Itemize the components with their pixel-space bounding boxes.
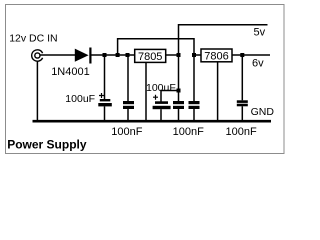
wire 7806 ground pin bbox=[217, 62, 219, 121]
capacitor C3 100uF electrolytic (mid) bbox=[153, 91, 179, 122]
svg-text:1N4001: 1N4001 bbox=[51, 66, 90, 78]
svg-text:100uF: 100uF bbox=[65, 93, 95, 105]
wire diode to 7805 input bbox=[92, 54, 135, 56]
node junction 7805 output bbox=[177, 53, 181, 57]
svg-text:7805: 7805 bbox=[138, 51, 162, 63]
capacitor C6 100nF bbox=[237, 55, 248, 121]
connector J1 DC jack bbox=[32, 50, 43, 61]
capacitor C5 100nF bbox=[189, 55, 200, 121]
wire jack to diode bbox=[40, 54, 75, 56]
ground rail bbox=[33, 120, 272, 123]
wire 7805 output bbox=[166, 54, 179, 56]
svg-text:6v: 6v bbox=[252, 57, 264, 69]
wire 7806 input bbox=[194, 54, 201, 56]
wire B 12v over 7805 to 7806 input bbox=[118, 39, 194, 55]
regulator U2 7806 bbox=[201, 49, 232, 63]
svg-text:7806: 7806 bbox=[204, 51, 228, 63]
wire 7805 ground pin bbox=[145, 62, 147, 121]
svg-text:100nF: 100nF bbox=[111, 126, 142, 138]
svg-text:100nF: 100nF bbox=[173, 126, 204, 138]
node junction on input rail (100nF tap) bbox=[126, 53, 130, 57]
svg-text:12v DC IN: 12v DC IN bbox=[9, 33, 57, 45]
node junction 7806 input bbox=[192, 53, 196, 57]
svg-text:5v: 5v bbox=[254, 27, 266, 39]
capacitor C1 100uF electrolytic bbox=[98, 55, 112, 121]
wire 7806 output 6v bbox=[232, 54, 270, 56]
svg-text:Power Supply: Power Supply bbox=[7, 137, 87, 151]
svg-text:100uF: 100uF bbox=[146, 82, 176, 94]
svg-text:GND: GND bbox=[251, 106, 275, 118]
regulator U1 7805 bbox=[135, 49, 166, 63]
border frame bbox=[6, 5, 285, 154]
wire 5v rail bbox=[179, 25, 268, 55]
capacitor C2 100nF bbox=[123, 55, 134, 121]
node junction on input rail (wire B tap) bbox=[116, 53, 120, 57]
svg-text:100nF: 100nF bbox=[226, 126, 257, 138]
capacitor C4 100nF bbox=[173, 55, 184, 121]
node junction mid 100uF to output riser bbox=[177, 89, 181, 93]
node junction on input rail (100uF tap) bbox=[103, 53, 107, 57]
node junction 7806 output bbox=[240, 53, 244, 57]
diode D1 bbox=[75, 48, 92, 64]
wire jack sleeve to ground bbox=[36, 61, 38, 120]
